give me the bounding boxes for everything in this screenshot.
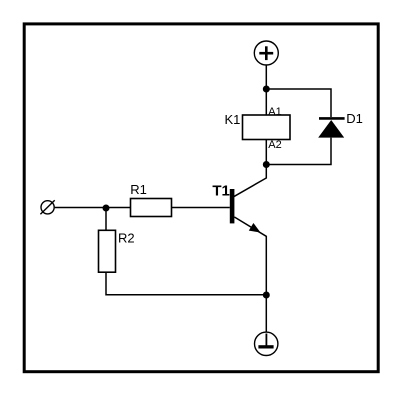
svg-text:K1: K1 [225, 112, 241, 127]
svg-text:D1: D1 [346, 111, 363, 126]
svg-text:R2: R2 [118, 231, 135, 246]
svg-text:A1: A1 [268, 106, 281, 118]
svg-text:T1: T1 [212, 182, 230, 199]
svg-text:A2: A2 [268, 139, 281, 151]
svg-text:R1: R1 [130, 182, 147, 197]
